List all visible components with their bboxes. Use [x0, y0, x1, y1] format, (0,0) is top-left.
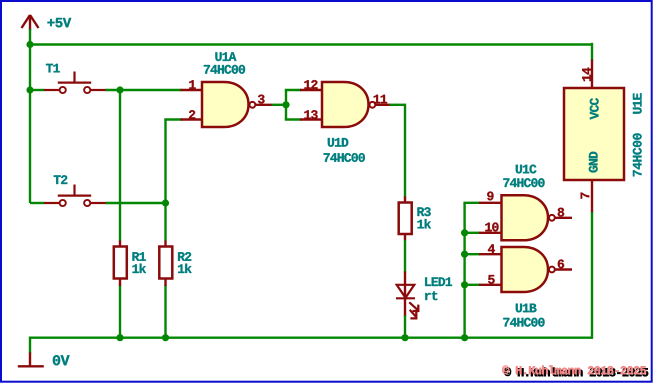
- pin number 3: [258, 95, 265, 104]
- node T1 output junction: [116, 86, 123, 93]
- pin name VCC: [590, 98, 599, 119]
- nand gate U1C: [479, 195, 572, 240]
- label U1A 74HC00: [215, 52, 236, 61]
- net label +5V: [47, 18, 71, 27]
- label U1D 74HC00: [328, 138, 348, 147]
- pin number 10: [485, 223, 498, 232]
- wire bottom rail: [30, 337, 592, 339]
- label U1C 74HC00: [516, 165, 537, 174]
- wire junction vertical: [285, 90, 287, 120]
- label T1: [46, 64, 60, 73]
- wire pin2 row: [164, 118, 182, 120]
- wire pin2 branch up: [164, 120, 166, 204]
- nand gate U1B: [479, 247, 572, 292]
- node rail junction R2: [162, 334, 169, 341]
- pin number 11: [374, 95, 387, 104]
- resistor R2: [159, 241, 172, 287]
- label U1B 74HC00: [516, 304, 537, 313]
- node pin10 junction: [461, 229, 468, 236]
- wire pin7 to rail: [591, 212, 593, 339]
- pin number 8: [558, 208, 564, 217]
- node pin5 junction: [461, 281, 468, 288]
- pin number 6: [558, 260, 564, 269]
- pin number 13: [304, 110, 317, 119]
- ground symbol 0V: [29, 337, 31, 354]
- wire T1 row left: [30, 89, 45, 91]
- label R3 1k: [417, 207, 430, 216]
- wire T1 to pin1: [106, 89, 182, 91]
- pin number 14: [582, 68, 591, 82]
- wire U1D out: [390, 104, 406, 106]
- wire pin10 row: [465, 232, 480, 234]
- pin name GND: [589, 152, 598, 173]
- wire LED to rail: [404, 316, 406, 339]
- net label 0V: [53, 355, 70, 365]
- pin number 7: [581, 193, 590, 199]
- led LED1: [396, 272, 419, 320]
- wire pin5 row: [465, 284, 480, 286]
- node pin4 junction: [461, 251, 468, 258]
- node T1 left junction: [26, 86, 33, 93]
- node T2 output junction: [162, 199, 169, 206]
- wire to pin13: [285, 118, 301, 120]
- wire T2 row left: [30, 202, 45, 204]
- nand gate U1A: [181, 82, 273, 127]
- wire R3 column upper: [404, 104, 406, 198]
- resistor R3: [399, 197, 412, 241]
- node U1A output junction: [282, 101, 289, 108]
- wire R1 column: [119, 90, 121, 241]
- label LED1 rt: [425, 277, 452, 286]
- pin number 4: [488, 244, 495, 253]
- node +5V junction: [26, 41, 33, 48]
- ic power block U1E: [564, 60, 624, 214]
- label R1 1k: [132, 252, 145, 261]
- label 74HC00 vertical: [633, 133, 642, 176]
- label U1E: [633, 93, 642, 113]
- label R2 1k: [178, 252, 191, 261]
- pin number 12: [304, 80, 317, 89]
- pin number 2: [189, 110, 195, 119]
- wire left rail: [29, 29, 31, 203]
- switch T2: [44, 185, 107, 207]
- supply symbol +5V arrow: [22, 15, 39, 31]
- pin number 9: [487, 192, 493, 201]
- pin number 1: [189, 80, 195, 89]
- wire T2 to R2 column: [106, 202, 166, 204]
- node rail junction LED: [401, 334, 408, 341]
- switch T1: [44, 72, 107, 94]
- wire U1A out to junction: [272, 104, 287, 106]
- wire to pin12: [285, 89, 301, 91]
- wire pin4 row: [465, 253, 480, 255]
- node rail junction inputs: [461, 334, 468, 341]
- copyright text: [504, 368, 648, 377]
- wire pin9 row: [463, 202, 480, 204]
- nand gate U1D: [300, 82, 391, 127]
- pin number 5: [488, 275, 494, 284]
- node rail junction R1: [116, 334, 123, 341]
- wire unused-input column: [463, 203, 465, 338]
- wire R2 column: [164, 203, 166, 241]
- wire R3 to LED: [404, 240, 406, 273]
- resistor R1: [114, 241, 127, 287]
- label T2: [54, 175, 68, 184]
- wire IC vcc drop: [591, 43, 593, 61]
- wire top rail: [29, 43, 592, 45]
